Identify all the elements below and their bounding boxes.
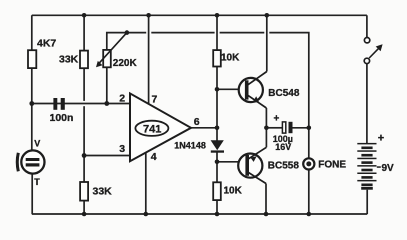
svg-text:4K7: 4K7 xyxy=(37,38,56,50)
potentiometer P1 wiper arrowhead xyxy=(96,61,103,67)
node BC558 base xyxy=(215,160,220,165)
transistor Q1 emitter xyxy=(248,95,266,108)
svg-text:+: + xyxy=(378,133,384,145)
wire feedback segment 4 to output drop xyxy=(269,33,309,159)
svg-text:+: + xyxy=(274,114,280,125)
node ground / 10K lower xyxy=(215,212,220,217)
potentiometer P1 wiper diagonal xyxy=(98,33,127,65)
node top rail / collector xyxy=(265,13,270,18)
wire output node to cap xyxy=(266,127,282,129)
node ground / 33K lower xyxy=(82,212,87,217)
potentiometer P1 220K body xyxy=(103,50,111,67)
node pin3 / divider xyxy=(82,153,87,158)
transistor Q1 collector xyxy=(248,72,267,85)
svg-text:10K: 10K xyxy=(224,186,243,197)
transistor Q1 base bar xyxy=(245,80,249,99)
wire BC558 collector drop xyxy=(265,184,267,215)
switch S1 lever arrowhead xyxy=(376,44,383,51)
wire pin 3 input xyxy=(84,155,130,157)
node emitters / cap xyxy=(264,126,269,131)
wire top-right drop to switch xyxy=(366,15,368,37)
svg-text:7: 7 xyxy=(152,94,158,106)
svg-text:6: 6 xyxy=(194,116,200,128)
wire BC558 emitter riser xyxy=(265,128,267,148)
wire driver column xyxy=(216,15,218,140)
wire pin 4 ground xyxy=(145,152,147,214)
node BC548 base xyxy=(215,87,220,92)
wire BC548 emitter drop xyxy=(265,108,267,128)
microphone MIC case bar xyxy=(17,153,18,172)
node cap / fone drop xyxy=(307,126,312,131)
svg-text:220K: 220K xyxy=(113,58,138,69)
node top rail / pin7 xyxy=(146,13,151,18)
capacitor C1 100n right plate xyxy=(61,98,65,110)
wire pin 6 output xyxy=(191,127,217,129)
connector FONE center dot xyxy=(306,161,311,166)
transistor Q2 emitter xyxy=(249,147,267,159)
capacitor C2 100u negative plate xyxy=(289,122,293,133)
wire cap to fone node xyxy=(292,127,309,129)
resistor R5 10K lower xyxy=(213,182,221,200)
wire battery to ground rail xyxy=(366,190,368,214)
diode D1 1N4148 triangle xyxy=(211,140,224,150)
svg-text:9V: 9V xyxy=(382,163,395,174)
svg-text:4: 4 xyxy=(151,151,157,163)
wire feedback segment 2 xyxy=(151,32,214,34)
node pin6 / diode xyxy=(215,126,220,131)
svg-text:FONE: FONE xyxy=(318,160,346,171)
wire 220K top lead xyxy=(107,33,146,50)
transistor Q1 BC548 circle xyxy=(239,78,263,102)
node mic / 100n xyxy=(29,101,34,106)
resistor R1 4K7 xyxy=(28,50,36,68)
svg-text:10K: 10K xyxy=(221,53,240,64)
diode D1 cathode bar xyxy=(211,150,224,152)
svg-text:BC558: BC558 xyxy=(268,161,300,172)
wire left rail lower (mic to ground) xyxy=(31,174,33,214)
op-amp U1 741 ellipse xyxy=(135,121,168,136)
microphone MIC lower plate xyxy=(26,163,40,166)
microphone MIC upper plate xyxy=(26,158,40,161)
transistor Q2 base bar xyxy=(245,155,249,176)
svg-text:V: V xyxy=(34,139,40,149)
switch S1 lower contact xyxy=(364,58,369,63)
svg-text:16V: 16V xyxy=(275,142,291,152)
transistor Q2 emitter arrowhead xyxy=(251,156,257,162)
wire 220K bottom lead xyxy=(106,67,108,103)
svg-text:2: 2 xyxy=(119,93,125,105)
battery B1 9V cells xyxy=(357,143,376,190)
wire bottom rail xyxy=(32,213,368,215)
microphone MIC circle xyxy=(21,150,44,173)
wire BC548 base xyxy=(217,88,245,90)
capacitor C2 100u positive plate xyxy=(282,122,285,133)
svg-text:1N4148: 1N4148 xyxy=(174,141,206,151)
svg-text:33K: 33K xyxy=(93,186,113,198)
node 220K wiper junction xyxy=(125,30,130,35)
node ground / BC558 collector xyxy=(264,212,269,217)
wire driver column lower xyxy=(216,152,218,214)
node ground / fone xyxy=(307,212,312,217)
svg-text:T: T xyxy=(34,177,40,187)
wire switch to battery xyxy=(366,64,368,144)
wire BC558 base xyxy=(217,161,246,163)
wire fone to ground xyxy=(308,170,310,214)
wire BC548 collector riser xyxy=(266,15,268,71)
connector FONE ring xyxy=(303,158,314,169)
node 220K / pin2 xyxy=(104,101,109,106)
wire left rail xyxy=(31,15,33,150)
wire 33K divider vertical lower xyxy=(83,106,85,214)
op-amp U1 741 triangle xyxy=(130,93,191,161)
node top rail / 33K xyxy=(82,13,87,18)
battery tick to label xyxy=(377,166,381,168)
svg-text:33K: 33K xyxy=(59,54,79,66)
svg-text:3: 3 xyxy=(119,143,125,155)
wire top rail xyxy=(32,14,367,16)
svg-text:100n: 100n xyxy=(50,112,74,124)
wire 33K divider vertical upper xyxy=(83,15,85,101)
switch S1 lever xyxy=(369,48,379,58)
switch S1 upper contact xyxy=(364,38,369,43)
transistor Q2 BC558 circle xyxy=(238,154,262,178)
transistor Q2 collector xyxy=(249,173,267,184)
resistor R3 33K lower xyxy=(80,182,88,201)
resistor R2 33K upper xyxy=(80,51,88,69)
wire pin 7 supply xyxy=(148,15,150,104)
node top rail / 10K xyxy=(215,13,220,18)
capacitor C1 100n left plate xyxy=(53,98,57,110)
svg-text:741: 741 xyxy=(143,123,161,135)
svg-text:BC548: BC548 xyxy=(268,88,300,99)
resistor R4 10K upper xyxy=(213,50,221,66)
wire 100n input wire xyxy=(32,103,131,105)
transistor Q1 emitter arrowhead xyxy=(253,96,259,103)
wire feedback segment 3 xyxy=(220,32,265,34)
node ground / pin4 xyxy=(144,212,149,217)
